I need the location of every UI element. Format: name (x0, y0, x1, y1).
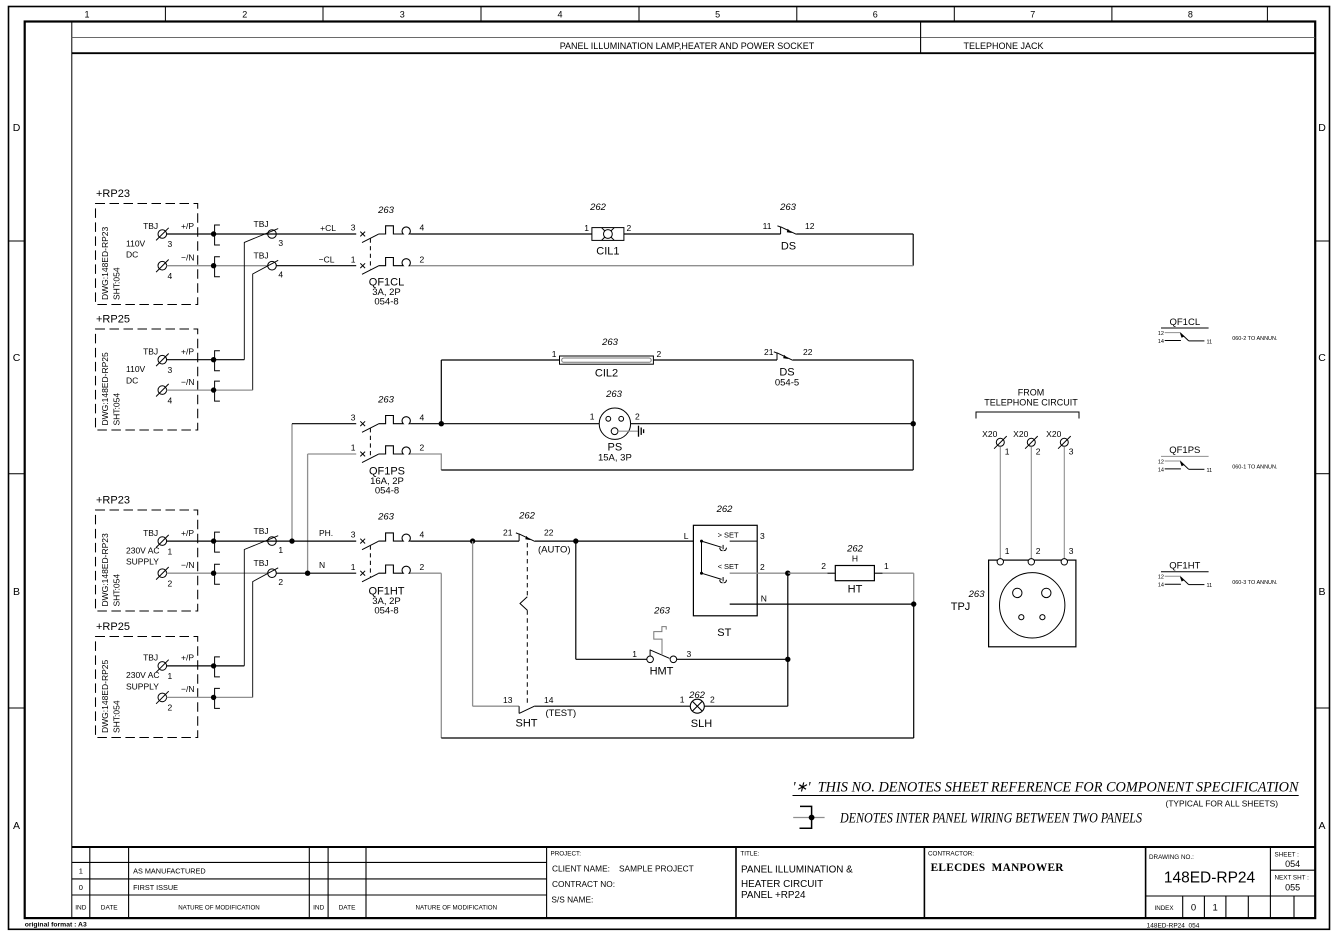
svg-text:TBJ: TBJ (143, 528, 158, 538)
svg-text:054-8: 054-8 (375, 486, 399, 497)
svg-text:DS: DS (781, 241, 796, 253)
wire QF1HT out to SHT auto contact (410, 540, 519, 542)
wire right bus drop (PS circuit) (912, 360, 914, 470)
junction node on -N feed (211, 263, 216, 268)
svg-text:SLH: SLH (691, 718, 712, 730)
svg-text:+RP25: +RP25 (96, 621, 130, 633)
svg-text:3: 3 (168, 365, 173, 375)
svg-text:2: 2 (242, 10, 247, 20)
svg-text:12: 12 (1158, 459, 1164, 465)
wire neutral drop (440, 573, 442, 738)
junction node +RP25 +P (211, 357, 216, 362)
svg-text:SUPPLY: SUPPLY (126, 682, 159, 692)
svg-text:15A, 3P: 15A, 3P (598, 453, 632, 464)
junction node on +P feed (211, 231, 216, 236)
svg-text:230V AC: 230V AC (126, 545, 160, 555)
svg-text:12: 12 (805, 221, 815, 231)
svg-text:3: 3 (687, 649, 692, 659)
svg-text:ST: ST (717, 627, 731, 639)
wire PS return (441, 469, 913, 471)
svg-text:HMT: HMT (650, 666, 674, 678)
terminal TBJ 4 (block +RP23) (156, 260, 169, 273)
junction node N / right bus (911, 601, 916, 606)
wire riser from +RP25 -N to TBJ 4 (253, 260, 279, 390)
wire heater bottom return (441, 737, 913, 739)
wire riser PH to QF1PS pole3 (291, 424, 293, 541)
svg-text:3: 3 (1069, 546, 1074, 556)
svg-text:+RP23: +RP23 (96, 188, 130, 200)
terminal TBJ 4 (block +RP25) (156, 384, 169, 397)
svg-text:3: 3 (760, 531, 765, 541)
wire node to heater HT (788, 572, 828, 574)
wire riser to CIL2 row (440, 360, 442, 424)
svg-text:4: 4 (420, 530, 425, 540)
svg-text:PANEL ILLUMINATION LAMP,HEATER: PANEL ILLUMINATION LAMP,HEATER AND POWER… (560, 41, 815, 51)
svg-text:2: 2 (635, 412, 640, 422)
wire -CL return (410, 265, 913, 267)
svg-text:2: 2 (657, 349, 662, 359)
svg-text:DENOTES INTER PANEL WIRING BET: DENOTES INTER PANEL WIRING BETWEEN TWO P… (839, 811, 1142, 827)
svg-text:CONTRACTOR:: CONTRACTOR: (928, 851, 974, 858)
svg-text:< SET: < SET (718, 562, 739, 571)
svg-text:X20: X20 (1013, 429, 1028, 439)
wire SHT to thermostat L (535, 540, 694, 542)
svg-text:SUPPLY: SUPPLY (126, 557, 159, 567)
junction node right bus / PS out (911, 421, 916, 426)
panel boundary bracket (215, 688, 220, 708)
SHT mechanical linkage dashed (526, 543, 528, 597)
svg-text:TBJ: TBJ (143, 221, 158, 231)
svg-text:3: 3 (278, 238, 283, 248)
note symbol: inter panel wiring (800, 806, 812, 828)
column ruler ticks (165, 7, 1267, 22)
svg-text:+/P: +/P (181, 653, 194, 663)
svg-text:'∗' THIS NO. DENOTES SHEET RE: '∗' THIS NO. DENOTES SHEET REFERENCE FOR… (793, 780, 1300, 796)
svg-text:(TEST): (TEST) (546, 708, 577, 719)
wire CIL1 to DS (624, 233, 781, 235)
HMT manual operator (654, 627, 666, 656)
svg-text:060-1 TO ANNUN.: 060-1 TO ANNUN. (1232, 465, 1278, 471)
svg-text:TPJ: TPJ (951, 601, 971, 613)
svg-text:−/N: −/N (181, 684, 194, 694)
svg-text:N: N (761, 593, 767, 603)
svg-text:+CL: +CL (320, 223, 336, 233)
svg-text:0: 0 (1191, 903, 1196, 914)
svg-text:4: 4 (278, 270, 283, 280)
svg-text:TBJ: TBJ (143, 347, 158, 357)
svg-text:21: 21 (764, 347, 774, 357)
wire +RP25 230V -N stub (167, 696, 253, 698)
terminal TBJ 2 (block +RP23) (156, 567, 169, 580)
svg-text:FROM: FROM (1018, 387, 1045, 397)
svg-text:2: 2 (278, 577, 283, 587)
svg-text:2: 2 (420, 443, 425, 453)
svg-text:4: 4 (557, 10, 562, 20)
svg-text:13: 13 (503, 695, 513, 705)
svg-text:2: 2 (168, 578, 173, 588)
svg-text:11: 11 (1207, 340, 1213, 346)
junction node PH to QF1PS riser (289, 538, 294, 543)
junction node +RP25 230V +P (211, 663, 216, 668)
wire X20 2 to TPJ (1030, 446, 1032, 558)
wire riser from +RP25 230V +P to TBJ 1 (244, 536, 278, 666)
wire ST pin2 to HT node (757, 572, 788, 574)
svg-text:263: 263 (377, 512, 395, 523)
svg-text:SHT:054: SHT:054 (112, 267, 122, 300)
svg-text:L: L (684, 531, 689, 541)
svg-text:1: 1 (1212, 903, 1217, 914)
wire riser from +RP25 +P to TBJ 3 (244, 229, 278, 360)
svg-text:6: 6 (873, 10, 878, 20)
svg-text:1: 1 (884, 561, 889, 571)
wire PS to right bus (631, 423, 914, 425)
svg-text:INDEX: INDEX (1155, 905, 1174, 912)
svg-text:QF1PS: QF1PS (1169, 445, 1200, 456)
breaker QF1PS linkage (369, 428, 371, 457)
panel boundary bracket (215, 225, 220, 245)
svg-text:TBJ: TBJ (254, 251, 269, 261)
junction node N feed (211, 571, 216, 576)
svg-text:2: 2 (420, 254, 425, 264)
terminal TBJ 2 (block +RP25) (156, 691, 169, 704)
svg-text:DATE: DATE (101, 904, 119, 911)
breaker QF1HT linkage (369, 546, 371, 577)
svg-text:11: 11 (763, 221, 772, 231)
svg-text:1: 1 (1005, 447, 1010, 457)
svg-text:TBJ: TBJ (143, 653, 158, 663)
svg-text:1: 1 (84, 10, 89, 20)
svg-text:HEATER CIRCUIT: HEATER CIRCUIT (741, 879, 823, 890)
svg-text:QF1HT: QF1HT (1169, 561, 1200, 572)
svg-text:(TYPICAL FOR ALL SHEETS): (TYPICAL FOR ALL SHEETS) (1166, 798, 1279, 808)
wire X20 1 to TPJ (999, 446, 1001, 558)
svg-text:X20: X20 (1046, 429, 1061, 439)
svg-text:−/N: −/N (181, 560, 194, 570)
svg-text:IND: IND (75, 904, 87, 911)
svg-text:PROJECT:: PROJECT: (551, 851, 582, 858)
junction node +RP25 -N (211, 387, 216, 392)
svg-text:11: 11 (1207, 583, 1213, 589)
wire CIL2 feed (441, 359, 559, 361)
svg-text:1: 1 (680, 695, 685, 705)
wire SLH to node (704, 705, 788, 707)
breaker QF1CL linkage (369, 239, 371, 270)
wire riser from +RP25 230V -N to TBJ 2 (253, 568, 279, 698)
svg-text:2: 2 (760, 562, 765, 572)
svg-text:3: 3 (351, 530, 356, 540)
junction node PS feed / CIL2 riser (439, 421, 444, 426)
wire right bus drop (CL) (912, 234, 914, 266)
svg-text:22: 22 (544, 528, 554, 538)
wire +P feed from +RP23 110V (167, 233, 357, 235)
svg-text:−/N: −/N (181, 377, 194, 387)
svg-text:054-5: 054-5 (775, 378, 799, 389)
svg-text:TITLE:: TITLE: (740, 851, 759, 858)
wire QF1PS pole2 stub (410, 454, 441, 470)
svg-text:SHT:054: SHT:054 (112, 574, 122, 607)
svg-text:14: 14 (544, 695, 554, 705)
top header band (72, 36, 1315, 38)
svg-text:1: 1 (79, 866, 83, 875)
svg-text:AS MANUFACTURED: AS MANUFACTURED (133, 866, 206, 875)
svg-text:1: 1 (278, 545, 283, 555)
svg-text:2: 2 (1036, 546, 1041, 556)
svg-text:262: 262 (716, 504, 734, 515)
svg-text:D: D (13, 122, 21, 134)
svg-text:PANEL +RP24: PANEL +RP24 (741, 890, 806, 901)
row letter ticks (9, 241, 1330, 708)
title block frame (72, 846, 1315, 848)
panel boundary bracket (215, 381, 220, 401)
wire SHT test drop (472, 541, 474, 706)
svg-text:4: 4 (420, 412, 425, 422)
junction node +RP25 230V -N (211, 695, 216, 700)
svg-text:QF1CL: QF1CL (1169, 317, 1200, 328)
svg-text:DWG:148ED-RP23: DWG:148ED-RP23 (100, 227, 110, 300)
junction node SHT test drop (470, 538, 475, 543)
svg-text:263: 263 (779, 202, 797, 213)
svg-text:H: H (852, 554, 858, 564)
svg-text:262: 262 (518, 511, 536, 522)
svg-text:> SET: > SET (718, 531, 739, 540)
wire QF1CL to CIL1 (410, 233, 592, 235)
svg-text:054-8: 054-8 (374, 297, 398, 308)
svg-text:21: 21 (503, 528, 513, 538)
wire node vertical (HMT/SLH) (787, 573, 789, 706)
svg-text:11: 11 (1207, 468, 1213, 474)
junction node N to QF1PS riser (305, 571, 310, 576)
panel boundary bracket (215, 564, 220, 584)
junction node heater live (785, 571, 790, 576)
wire riser N to QF1PS pole1 (307, 454, 309, 573)
panel boundary bracket (215, 257, 220, 277)
svg-text:4: 4 (168, 271, 173, 281)
svg-text:8: 8 (1188, 10, 1193, 20)
svg-text:4: 4 (420, 223, 425, 233)
svg-text:NEXT SHT :: NEXT SHT : (1275, 875, 1310, 882)
PS earth lead (618, 430, 638, 432)
svg-text:2: 2 (1036, 447, 1041, 457)
svg-text:14: 14 (1158, 467, 1164, 473)
svg-text:263: 263 (377, 395, 395, 406)
svg-text:3: 3 (351, 223, 356, 233)
svg-text:2: 2 (821, 561, 826, 571)
svg-text:C: C (13, 352, 21, 364)
svg-text:DWG:148ED-RP25: DWG:148ED-RP25 (100, 660, 110, 733)
wire DS to right bus (796, 233, 913, 235)
svg-text:1: 1 (168, 546, 173, 556)
wire X20 3 to TPJ (1063, 446, 1065, 558)
svg-text:DATE: DATE (339, 904, 357, 911)
wire N feed from +RP23 230V (167, 572, 268, 574)
svg-text:NATURE OF MODIFICATION: NATURE OF MODIFICATION (416, 904, 498, 911)
svg-text:1: 1 (351, 254, 356, 264)
svg-text:+RP25: +RP25 (96, 314, 130, 326)
thermostat ST box (693, 525, 757, 616)
svg-text:3: 3 (1069, 447, 1074, 457)
svg-text:2: 2 (710, 695, 715, 705)
svg-text:(AUTO): (AUTO) (538, 545, 571, 556)
svg-text:+/P: +/P (181, 528, 194, 538)
wire QF1PS to PS socket (410, 423, 599, 425)
svg-text:7: 7 (1030, 10, 1035, 20)
svg-text:263: 263 (377, 205, 395, 216)
svg-text:060-2 TO ANNUN.: 060-2 TO ANNUN. (1232, 336, 1278, 342)
svg-text:TBJ: TBJ (254, 219, 269, 229)
svg-text:055: 055 (1285, 883, 1300, 893)
svg-text:263: 263 (968, 589, 986, 600)
svg-text:5: 5 (715, 10, 720, 20)
svg-text:1: 1 (351, 562, 356, 572)
svg-text:230V AC: 230V AC (126, 670, 160, 680)
svg-text:HT: HT (848, 584, 863, 596)
svg-text:D: D (1318, 122, 1326, 134)
svg-text:1: 1 (1005, 546, 1010, 556)
svg-text:S/S NAME:: S/S NAME: (551, 895, 593, 905)
svg-text:3: 3 (400, 10, 405, 20)
svg-text:TELEPHONE CIRCUIT: TELEPHONE CIRCUIT (984, 398, 1078, 408)
svg-text:148ED-RP24_054: 148ED-RP24_054 (1147, 922, 1200, 929)
wire +RP25 110V +P stub (167, 359, 245, 361)
junction node PH feed (211, 538, 216, 543)
svg-text:TELEPHONE JACK: TELEPHONE JACK (963, 41, 1043, 51)
svg-text:FIRST ISSUE: FIRST ISSUE (133, 883, 178, 892)
earth symbol (639, 426, 644, 437)
svg-text:22: 22 (803, 347, 813, 357)
telephone group bracket (976, 412, 1079, 419)
svg-text:IND: IND (313, 904, 325, 911)
svg-text:DWG:148ED-RP25: DWG:148ED-RP25 (100, 352, 110, 425)
junction node HMT out (785, 657, 790, 662)
svg-text:054: 054 (1285, 859, 1300, 869)
svg-text:SHT: SHT (516, 718, 538, 730)
svg-text:263: 263 (601, 337, 619, 348)
left inner margin line (71, 22, 73, 919)
svg-text:12: 12 (1158, 331, 1164, 337)
svg-text:14: 14 (1158, 339, 1164, 345)
svg-text:NATURE OF MODIFICATION: NATURE OF MODIFICATION (178, 904, 260, 911)
wire right bus (heater) upper (913, 573, 915, 604)
svg-text:263: 263 (605, 389, 623, 400)
wire CIL2 to DS (653, 359, 777, 361)
svg-text:110V: 110V (126, 238, 146, 248)
wire QF1PS pole1 input (308, 453, 357, 455)
svg-text:−CL: −CL (319, 255, 335, 265)
svg-text:SHEET :: SHEET : (1275, 851, 1300, 858)
wire -N feed from +RP23 110V (167, 265, 268, 267)
wire HMT branch drop (575, 541, 577, 659)
svg-text:DRAWING NO.:: DRAWING NO.: (1149, 854, 1194, 861)
svg-text:1: 1 (632, 649, 637, 659)
svg-text:2: 2 (420, 562, 425, 572)
svg-text:N: N (319, 560, 325, 570)
wire thermostat N out (730, 603, 914, 605)
svg-text:2: 2 (627, 223, 632, 233)
svg-text:PANEL ILLUMINATION &: PANEL ILLUMINATION & (741, 864, 853, 875)
panel boundary bracket (215, 532, 220, 552)
svg-text:DC: DC (126, 250, 138, 260)
svg-text:+RP23: +RP23 (96, 495, 130, 507)
svg-text:1: 1 (584, 223, 589, 233)
wire HMT to node (677, 658, 788, 660)
svg-text:3: 3 (351, 412, 356, 422)
svg-text:CIL1: CIL1 (596, 246, 619, 258)
wire DS to right bus (CIL2) (793, 359, 913, 361)
svg-text:14: 14 (1158, 583, 1164, 589)
svg-text:TBJ: TBJ (254, 526, 269, 536)
svg-text:SAMPLE PROJECT: SAMPLE PROJECT (619, 863, 694, 873)
svg-text:original format : A3: original format : A3 (25, 922, 87, 929)
svg-text:060-3 TO ANNUN.: 060-3 TO ANNUN. (1232, 580, 1278, 586)
svg-text:148ED-RP24: 148ED-RP24 (1164, 870, 1256, 887)
svg-text:1: 1 (351, 443, 356, 453)
svg-text:CIL2: CIL2 (595, 368, 618, 380)
svg-text:4: 4 (168, 395, 173, 405)
wire PH feed from +RP23 230V (167, 540, 357, 542)
svg-text:CLIENT NAME:: CLIENT NAME: (552, 863, 610, 873)
svg-text:A: A (13, 820, 20, 832)
svg-text:ELECDES MANPOWER: ELECDES MANPOWER (931, 862, 1065, 874)
svg-text:DC: DC (126, 375, 138, 385)
svg-text:+/P: +/P (181, 347, 194, 357)
svg-text:1: 1 (168, 671, 173, 681)
wire QF1HT pole2 to neutral drop (410, 572, 441, 574)
svg-text:X20: X20 (982, 429, 997, 439)
svg-text:C: C (1318, 352, 1326, 364)
svg-text:3: 3 (168, 239, 173, 249)
panel boundary bracket (215, 657, 220, 677)
wire HT to right bus (883, 572, 914, 574)
svg-text:DWG:148ED-RP23: DWG:148ED-RP23 (100, 533, 110, 606)
svg-text:B: B (13, 586, 20, 598)
wire right bus (heater) lower (913, 604, 915, 738)
svg-text:TBJ: TBJ (254, 558, 269, 568)
svg-text:12: 12 (1158, 575, 1164, 581)
svg-text:PH.: PH. (319, 528, 333, 538)
svg-text:0: 0 (79, 883, 83, 892)
svg-text:CONTRACT NO:: CONTRACT NO: (552, 879, 615, 889)
wire +RP25 230V +P stub (167, 665, 245, 667)
svg-text:+/P: +/P (181, 221, 194, 231)
svg-text:SHT:054: SHT:054 (112, 700, 122, 733)
svg-text:−/N: −/N (181, 253, 194, 263)
svg-text:1: 1 (552, 349, 557, 359)
svg-text:1: 1 (590, 412, 595, 422)
svg-text:054-8: 054-8 (374, 606, 398, 617)
wire +RP25 110V -N stub (167, 389, 253, 391)
panel boundary bracket (215, 351, 220, 371)
svg-text:2: 2 (168, 703, 173, 713)
svg-text:B: B (1318, 586, 1325, 598)
svg-text:262: 262 (589, 202, 607, 213)
svg-text:110V: 110V (126, 364, 146, 374)
wire QF1PS pole3 input (292, 423, 356, 425)
svg-text:263: 263 (653, 606, 671, 617)
svg-text:A: A (1318, 820, 1325, 832)
wire SHT to lamp SLH (535, 705, 690, 707)
svg-text:SHT:054: SHT:054 (112, 393, 122, 426)
